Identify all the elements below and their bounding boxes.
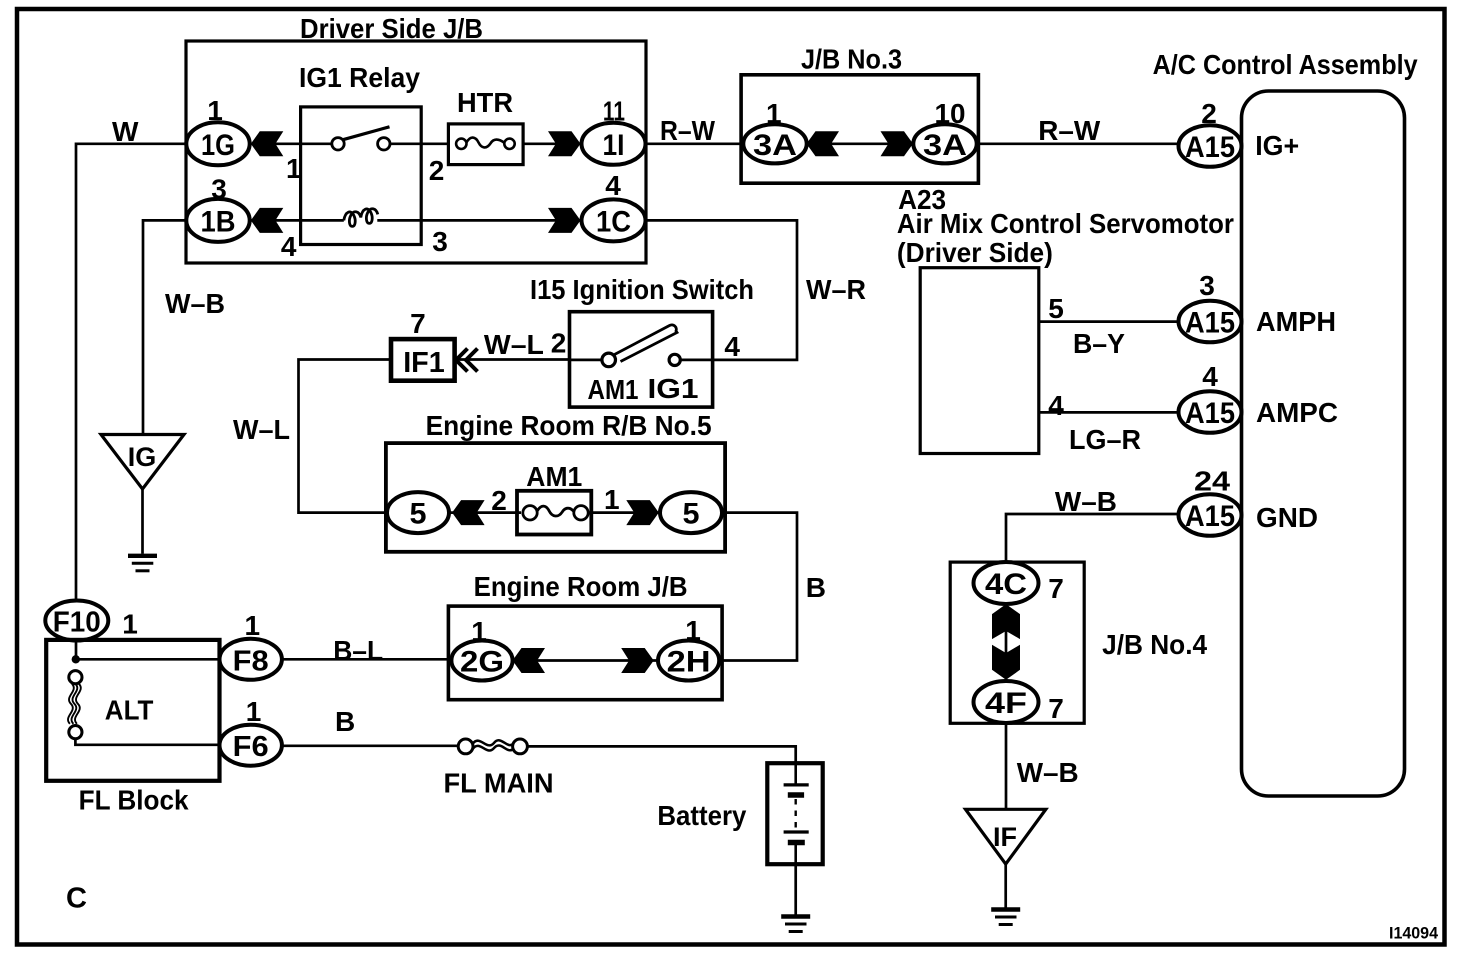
- svg-text:Driver Side J/B: Driver Side J/B: [300, 13, 483, 44]
- connector arrow at 2H: [621, 648, 654, 673]
- svg-text:FL MAIN: FL MAIN: [444, 768, 554, 799]
- svg-text:5: 5: [683, 498, 700, 531]
- wire F8 to 2G: [282, 658, 452, 661]
- wire ALT link to F6: [75, 739, 219, 745]
- wire F6 to FL MAIN: [282, 744, 459, 747]
- svg-text:AMPH: AMPH: [1256, 306, 1336, 337]
- svg-text:1C: 1C: [596, 205, 631, 238]
- svg-text:4C: 4C: [985, 568, 1027, 601]
- wire A15 GND to 4C: [1006, 514, 1179, 562]
- fuse AM1: [517, 491, 591, 535]
- svg-text:3: 3: [1199, 270, 1215, 301]
- connector F8: [220, 639, 282, 680]
- wire W-B from 1B to IG ground: [143, 220, 187, 434]
- svg-text:A15: A15: [1185, 307, 1235, 340]
- svg-text:1: 1: [122, 609, 138, 640]
- connector 2G: [451, 641, 512, 681]
- svg-text:3A: 3A: [753, 129, 797, 162]
- svg-text:AM1: AM1: [588, 374, 639, 405]
- svg-text:7: 7: [1048, 693, 1064, 724]
- svg-text:A15: A15: [1185, 397, 1235, 430]
- svg-text:3A: 3A: [923, 129, 967, 162]
- connector 5 right: [660, 492, 722, 533]
- wire 5 right to 2H: [719, 513, 797, 661]
- connector arrow at 1B: [251, 208, 283, 233]
- svg-text:4: 4: [1048, 390, 1064, 421]
- svg-text:1: 1: [245, 610, 261, 641]
- connector arrow at 2G: [513, 648, 546, 673]
- svg-text:B: B: [806, 572, 826, 603]
- connector 4C: [974, 562, 1039, 604]
- svg-text:IF1: IF1: [403, 347, 445, 379]
- svg-text:FL Block: FL Block: [79, 785, 189, 816]
- connector arrow at 1G: [251, 131, 283, 156]
- svg-text:W–B: W–B: [1055, 486, 1117, 517]
- junction block J/B No.4: [950, 562, 1084, 723]
- svg-text:IG+: IG+: [1255, 130, 1299, 161]
- wire IG triangle to ground: [141, 489, 144, 554]
- double chevron at IF1: [456, 349, 478, 372]
- svg-text:Engine Room R/B No.5: Engine Room R/B No.5: [426, 410, 712, 441]
- connector arrow at 5 left: [452, 500, 485, 525]
- relay IG1 box: [301, 107, 422, 245]
- wire relay pin 2 to HTR fuse: [390, 142, 449, 145]
- connector 1C: [582, 199, 646, 241]
- svg-text:F8: F8: [233, 645, 269, 677]
- svg-text:I15 Ignition Switch: I15 Ignition Switch: [530, 274, 754, 305]
- connector A15 AMPH: [1179, 301, 1242, 343]
- junction block Engine Room J/B: [448, 606, 722, 700]
- svg-text:Battery: Battery: [657, 800, 746, 831]
- connector arrow at 1C: [548, 208, 581, 233]
- svg-text:1G: 1G: [201, 129, 235, 162]
- svg-text:1: 1: [604, 484, 620, 515]
- svg-text:A/C Control Assembly: A/C Control Assembly: [1153, 49, 1418, 80]
- svg-text:LG–R: LG–R: [1069, 424, 1141, 455]
- svg-text:W–L: W–L: [484, 329, 544, 360]
- connector F6: [220, 725, 282, 766]
- svg-text:AM1: AM1: [526, 461, 582, 492]
- wire IF1 to ignition pin 2: [455, 358, 570, 361]
- fusible link FL MAIN: [458, 739, 527, 754]
- ground triangle IG: [101, 435, 184, 490]
- svg-text:(Driver Side): (Driver Side): [897, 237, 1053, 268]
- fuse HTR: [448, 124, 523, 165]
- wire IF triangle to ground: [1004, 864, 1007, 908]
- svg-text:F6: F6: [233, 731, 269, 763]
- fusible link ALT squiggle: [68, 684, 81, 724]
- svg-text:3: 3: [432, 226, 448, 257]
- svg-text:1: 1: [286, 153, 302, 184]
- svg-text:R–W: R–W: [660, 115, 715, 146]
- svg-text:W–B: W–B: [165, 288, 225, 319]
- connector double arrow down in J/B No.4: [992, 645, 1020, 680]
- svg-text:IG: IG: [128, 442, 157, 472]
- svg-text:I14094: I14094: [1389, 924, 1439, 943]
- svg-text:GND: GND: [1256, 502, 1318, 533]
- svg-text:1I: 1I: [603, 129, 625, 162]
- wire FL MAIN to battery: [527, 746, 795, 763]
- component A23 servomotor box: [920, 268, 1039, 454]
- wire servomotor pin 5 to A15 AMPH: [1039, 320, 1179, 323]
- wire 1G to relay pin 1: [250, 142, 333, 145]
- wire 5 to AM1 fuse: [450, 511, 522, 514]
- svg-text:F10: F10: [53, 607, 101, 639]
- component I15 ignition switch box: [570, 312, 713, 407]
- wire 4C to 4F: [1005, 604, 1008, 681]
- svg-text:W–R: W–R: [806, 274, 866, 305]
- wire W from 1G to F10: [76, 144, 187, 601]
- connector arrow at 3A right: [881, 131, 914, 156]
- connector F10: [45, 601, 108, 641]
- wire servomotor pin 4 to A15 AMPC: [1039, 411, 1179, 414]
- svg-text:4: 4: [605, 170, 621, 201]
- wire node to F8: [76, 658, 220, 661]
- connector 1G: [186, 122, 249, 165]
- relay switch arm: [343, 127, 390, 140]
- svg-text:IG1: IG1: [648, 373, 699, 404]
- fusible link IF1: [391, 339, 455, 381]
- wire ignition pin 2 to AM1 contact: [570, 359, 603, 362]
- connector arrow at 1I: [548, 131, 581, 156]
- connector 5 left: [387, 492, 449, 533]
- svg-text:4: 4: [1202, 361, 1218, 392]
- svg-text:C: C: [66, 883, 87, 915]
- wire 1C to ignition switch pin 4: [646, 220, 798, 360]
- wire 4F to IF triangle: [1005, 723, 1008, 809]
- connector 4F: [974, 681, 1039, 723]
- svg-text:W–B: W–B: [1017, 757, 1079, 788]
- svg-text:IG1 Relay: IG1 Relay: [299, 62, 420, 93]
- svg-text:1: 1: [246, 696, 262, 727]
- svg-text:W: W: [112, 116, 139, 147]
- connector double arrow up in J/B No.4: [992, 604, 1020, 639]
- svg-text:ALT: ALT: [105, 695, 154, 726]
- wire relay coil pin 3 to 1C: [377, 219, 581, 222]
- svg-text:A15: A15: [1185, 500, 1235, 533]
- wire J/B No.3 to A15 IG+: [978, 142, 1178, 145]
- svg-text:24: 24: [1194, 466, 1230, 497]
- ground triangle IF: [966, 809, 1046, 864]
- wire 1B to relay coil pin 4: [250, 219, 344, 222]
- junction node in FL Block: [72, 655, 80, 663]
- relay switch contact right: [378, 138, 390, 150]
- ground symbol under IF: [991, 910, 1020, 925]
- svg-text:HTR: HTR: [457, 87, 513, 118]
- relay block Engine Room R/B No.5: [386, 443, 725, 552]
- svg-text:B–L: B–L: [333, 635, 383, 666]
- svg-text:J/B No.3: J/B No.3: [801, 44, 902, 75]
- wire AM1 fuse to 5 right: [588, 511, 660, 514]
- ignition contact IG1: [669, 354, 680, 365]
- connector arrow at 3A left: [807, 131, 840, 156]
- ignition switch arm: [615, 325, 678, 362]
- svg-text:Air Mix Control Servomotor: Air Mix Control Servomotor: [897, 208, 1234, 239]
- svg-text:1B: 1B: [201, 205, 236, 238]
- ground symbol under battery: [781, 917, 810, 932]
- wire F10 into FL Block: [75, 640, 78, 659]
- wire 2G to 2H: [513, 659, 659, 662]
- fusible link ALT terminal top: [69, 671, 82, 684]
- svg-text:2: 2: [551, 328, 567, 359]
- connector 3A left: [743, 124, 806, 163]
- svg-text:2G: 2G: [460, 646, 504, 679]
- svg-text:4F: 4F: [985, 687, 1027, 720]
- wire 1I to J/B No.3: [646, 142, 744, 145]
- svg-text:2H: 2H: [667, 646, 711, 679]
- connector A15 GND: [1179, 494, 1242, 536]
- relay switch contact left: [332, 138, 344, 150]
- junction block Driver Side J/B: [186, 41, 646, 263]
- wire HTR to 1I: [523, 142, 581, 145]
- svg-text:7: 7: [1048, 573, 1064, 604]
- ignition contact AM1: [602, 353, 616, 367]
- fusible link ALT terminal bottom: [69, 726, 82, 739]
- svg-text:AMPC: AMPC: [1256, 397, 1338, 428]
- battery: [767, 763, 822, 864]
- ECU A/C Control Assembly outline: [1242, 91, 1405, 796]
- connector A15 AMPC: [1179, 391, 1242, 433]
- wire IG1 contact to ignition pin 4: [680, 359, 712, 362]
- svg-text:J/B No.4: J/B No.4: [1102, 629, 1207, 660]
- connector 3A right: [913, 124, 976, 163]
- svg-text:W–L: W–L: [233, 414, 290, 445]
- svg-text:5: 5: [410, 498, 427, 531]
- wire battery to ground: [794, 864, 797, 915]
- connector arrow at 5 right: [626, 500, 659, 525]
- connector A15 IG+: [1179, 125, 1242, 167]
- svg-text:5: 5: [1048, 293, 1064, 324]
- junction block J/B No.3: [741, 75, 978, 183]
- svg-text:2: 2: [429, 155, 445, 186]
- connector 1I: [582, 123, 646, 165]
- connector 2H: [658, 641, 719, 681]
- component FL Block box: [46, 640, 219, 781]
- svg-text:IF: IF: [993, 822, 1017, 852]
- svg-text:4: 4: [281, 231, 297, 262]
- wire 3A to 3A: [807, 142, 914, 145]
- wire IF1 loop to R/B No.5: [299, 360, 392, 513]
- svg-text:4: 4: [724, 331, 740, 362]
- svg-text:R–W: R–W: [1038, 115, 1101, 146]
- connector 1B: [186, 199, 249, 242]
- svg-text:B: B: [335, 706, 355, 737]
- ground symbol under IG: [128, 556, 157, 571]
- svg-text:Engine Room J/B: Engine Room J/B: [474, 571, 688, 602]
- svg-text:B–Y: B–Y: [1073, 328, 1125, 359]
- relay coil: [344, 209, 378, 227]
- svg-text:7: 7: [410, 308, 426, 339]
- svg-text:2: 2: [491, 485, 507, 516]
- svg-text:A15: A15: [1185, 131, 1235, 164]
